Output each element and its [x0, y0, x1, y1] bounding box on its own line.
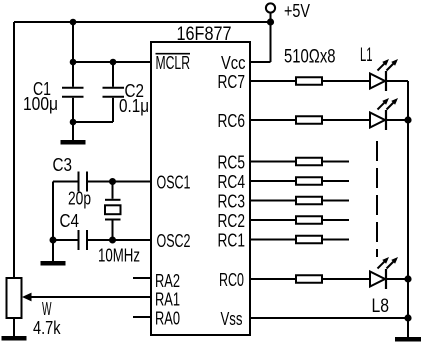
svg-text:W: W: [42, 298, 52, 319]
svg-text:RC4: RC4: [218, 172, 246, 192]
svg-text:MCLR: MCLR: [156, 53, 191, 73]
svg-text:510Ωx8: 510Ωx8: [284, 47, 336, 68]
svg-text:RA1: RA1: [155, 290, 180, 310]
svg-text:RA0: RA0: [155, 309, 180, 329]
svg-text:RC2: RC2: [218, 211, 246, 231]
svg-text:100μ: 100μ: [23, 93, 58, 114]
svg-text:RC5: RC5: [218, 152, 246, 172]
svg-text:+5V: +5V: [284, 1, 310, 21]
svg-text:4.7k: 4.7k: [33, 317, 61, 338]
svg-text:OSC1: OSC1: [157, 172, 191, 192]
svg-text:0.1μ: 0.1μ: [119, 95, 149, 116]
svg-text:RA2: RA2: [155, 271, 180, 291]
svg-text:10MHz: 10MHz: [98, 245, 140, 266]
svg-text:RC3: RC3: [218, 191, 246, 211]
svg-text:L8: L8: [372, 296, 390, 317]
svg-text:RC0: RC0: [219, 270, 244, 290]
svg-text:16F877: 16F877: [177, 23, 232, 45]
svg-text:RC6: RC6: [218, 111, 246, 131]
svg-text:L1: L1: [360, 45, 373, 66]
svg-text:Vss: Vss: [221, 309, 243, 329]
svg-text:RC7: RC7: [218, 72, 246, 92]
svg-text:20p: 20p: [68, 188, 91, 209]
svg-text:RC1: RC1: [218, 230, 246, 250]
svg-text:C4: C4: [60, 210, 80, 231]
svg-text:OSC2: OSC2: [157, 231, 191, 251]
svg-text:Vcc: Vcc: [221, 53, 246, 73]
svg-text:C3: C3: [53, 154, 73, 175]
